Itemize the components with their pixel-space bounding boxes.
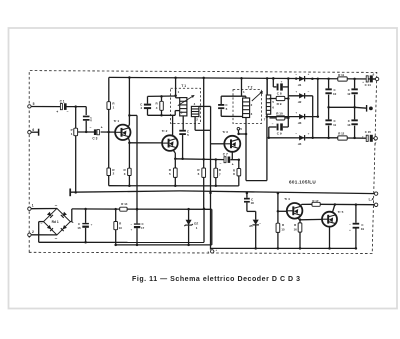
- transistor Tr2: [162, 135, 178, 151]
- svg-text:1: 1: [113, 106, 115, 110]
- svg-text:4: 4: [194, 102, 196, 106]
- wire emitter bus: [175, 158, 224, 161]
- transistor Tr3: [224, 136, 240, 152]
- wire bottom right rail: [211, 247, 357, 249]
- svg-text:T 2: T 2: [248, 86, 253, 90]
- svg-text:601.105/LU: 601.105/LU: [289, 180, 316, 185]
- svg-text:5: 5: [187, 133, 189, 137]
- svg-text:3: 3: [208, 250, 210, 254]
- inductor T2 primary: [243, 98, 250, 118]
- svg-text:d3: d3: [298, 121, 302, 125]
- svg-text:−: −: [220, 162, 222, 166]
- svg-text:6: 6: [32, 128, 34, 132]
- potentiometer P1: [74, 128, 78, 136]
- capacitor C1: [60, 104, 62, 110]
- svg-text:T 1: T 1: [181, 84, 186, 88]
- wire P1 wiper row: [78, 131, 95, 133]
- node emitter bus R7: [215, 158, 218, 161]
- wire T1 pin 1 from top rail: [175, 78, 177, 96]
- node C17 bottom: [136, 244, 139, 247]
- wire T1 secondary top to base column: [199, 105, 211, 107]
- svg-text:C 14: C 14: [365, 83, 371, 87]
- wire Tr5 collector: [332, 205, 335, 213]
- wire R3 to ground rail A: [128, 176, 130, 186]
- wire Tr5 base: [300, 218, 322, 220]
- svg-text:C 3: C 3: [92, 136, 97, 140]
- svg-text:d5: d5: [249, 224, 253, 228]
- svg-text:16: 16: [77, 226, 81, 230]
- node C13 bottom: [353, 137, 356, 140]
- terminal 3: [211, 250, 214, 253]
- capacitor C9: [277, 124, 279, 131]
- svg-text:Tr 5: Tr 5: [338, 210, 344, 214]
- terminal LA upper: [374, 192, 377, 195]
- wire T1 primary bottom to C5: [182, 116, 184, 130]
- svg-text:3: 3: [124, 172, 126, 176]
- svg-text:Tr 4: Tr 4: [284, 197, 290, 201]
- svg-text:−: −: [67, 110, 69, 114]
- wire T2 secondary top to rail: [266, 78, 268, 95]
- svg-text:−: −: [130, 222, 132, 226]
- svg-text:4: 4: [156, 106, 158, 110]
- wire C6 top loop: [220, 96, 222, 104]
- svg-text:2: 2: [251, 103, 253, 107]
- capacitor C3: [94, 129, 97, 135]
- node B+ column joins rail: [136, 208, 139, 211]
- resistor R8: [237, 169, 241, 176]
- node R9 right: [287, 97, 290, 100]
- diode d5: [253, 220, 259, 225]
- node R13 bottom: [114, 244, 117, 247]
- svg-text:R: R: [282, 223, 285, 227]
- svg-text:+: +: [130, 227, 132, 231]
- node rail B junctions: [74, 191, 77, 194]
- node C5 bottom: [181, 158, 184, 161]
- wire Tr2 emitter: [173, 150, 175, 153]
- inductor T2 secondary: [266, 95, 270, 114]
- node input junction: [74, 105, 77, 108]
- wire d4 row: [269, 137, 338, 139]
- node R10 right: [287, 117, 290, 120]
- resistor R15: [277, 211, 279, 223]
- node T2 primary bottom Tr3 collector: [245, 133, 248, 136]
- transistor Tr4: [287, 203, 303, 219]
- svg-text:Tr 2: Tr 2: [162, 129, 168, 133]
- svg-text:R: R: [294, 223, 297, 227]
- rectifier Rd1 bridge: [44, 208, 71, 235]
- ground chassis bar: [69, 189, 71, 197]
- svg-text:+: +: [91, 223, 93, 227]
- wire Tr1 emitter: [128, 138, 129, 141]
- node C19 top: [355, 203, 358, 206]
- svg-text:R 10: R 10: [276, 112, 283, 116]
- wire ground rail A: [109, 185, 239, 187]
- wire supply rail right of R14: [127, 208, 212, 210]
- node mid row left: [327, 106, 330, 109]
- svg-text:~: ~: [55, 236, 58, 241]
- wire C9 left down to row4: [269, 126, 274, 128]
- wire Tr4 emitter to R16: [297, 218, 300, 221]
- svg-text:6: 6: [373, 73, 375, 77]
- resistor R4: [160, 101, 164, 110]
- node Tr1 emitter: [128, 142, 131, 145]
- wire d3 row: [267, 116, 318, 118]
- node R4 top: [160, 95, 163, 98]
- svg-text:R 17: R 17: [312, 199, 318, 203]
- svg-text:+: +: [56, 110, 58, 114]
- wire T2 pin 1 from top rail: [241, 78, 243, 96]
- svg-text:18: 18: [251, 201, 255, 205]
- svg-text:~: ~: [55, 203, 58, 208]
- wire chassis rail B: [70, 191, 180, 192]
- svg-text:13: 13: [119, 226, 123, 230]
- diode DZ zener: [188, 209, 190, 220]
- terminal 2: [28, 233, 31, 236]
- svg-text:1: 1: [243, 90, 245, 94]
- node R8 top: [238, 158, 241, 161]
- svg-text:19: 19: [361, 227, 365, 231]
- svg-text:+: +: [281, 79, 283, 83]
- svg-text:+: +: [308, 131, 310, 135]
- resistor R12: [338, 136, 347, 140]
- node emitter bus R6: [202, 158, 205, 161]
- wire mid row: [329, 106, 355, 108]
- wire terminal 1 to bridge: [31, 208, 57, 210]
- node supply corner ground: [203, 208, 206, 211]
- svg-text:Fig. 11 — Schema elettrico Dec: Fig. 11 — Schema elettrico Decoder D C D…: [132, 276, 301, 283]
- terminal 1: [28, 207, 31, 210]
- svg-text:10: 10: [333, 92, 337, 96]
- svg-text:3: 3: [251, 112, 253, 116]
- wire Tr4 base: [278, 210, 287, 212]
- svg-text:15: 15: [281, 228, 285, 232]
- node zener top: [187, 208, 190, 211]
- diode d3: [299, 114, 304, 119]
- arrow T2 tuning: [252, 91, 263, 101]
- terminal LA lower: [374, 203, 377, 206]
- capacitor C4: [147, 96, 149, 103]
- wire R10 leads: [269, 117, 276, 119]
- wire T1 secondary bottom: [194, 117, 196, 131]
- wire secondary pin4 hook: [266, 78, 268, 95]
- svg-text:−: −: [90, 126, 92, 130]
- wire secondary ground line: [116, 244, 212, 246]
- node C9 row4: [268, 137, 271, 140]
- wire R7 leads: [215, 160, 217, 169]
- svg-text:R 11: R 11: [338, 73, 344, 77]
- node C2 bottom: [85, 131, 88, 134]
- svg-text:−: −: [295, 132, 297, 136]
- wire R8 leads: [238, 160, 240, 169]
- svg-text:+: +: [101, 125, 103, 129]
- diode d2: [299, 93, 304, 98]
- svg-text:−: −: [259, 222, 261, 226]
- resistor R1: [107, 102, 111, 110]
- wire Tr5 emitter: [329, 227, 331, 249]
- wire R5 leads: [174, 159, 176, 168]
- svg-text:11: 11: [333, 123, 336, 127]
- wire base feed column: [277, 193, 279, 211]
- svg-text:7: 7: [375, 142, 377, 146]
- wire collector node to top rail: [128, 78, 130, 116]
- svg-text:d4: d4: [298, 142, 302, 146]
- svg-text:4: 4: [140, 106, 142, 110]
- svg-text:d2: d2: [298, 100, 302, 104]
- transistor Tr1: [115, 125, 130, 140]
- svg-text:−: −: [349, 222, 351, 226]
- wire R6 bottom to supply rail: [203, 177, 205, 208]
- node R4 bottom: [160, 114, 163, 117]
- node mid row right: [353, 106, 356, 109]
- node zener bottom: [187, 244, 190, 247]
- svg-text:C 9: C 9: [277, 132, 282, 136]
- capacitor C12: [354, 79, 356, 89]
- wire C4 R4 top: [148, 95, 176, 97]
- wire C1 to node: [66, 106, 86, 108]
- wire R2 to ground rail A: [108, 176, 110, 186]
- capacitor C5: [179, 130, 186, 132]
- node rail joints: [254, 247, 257, 250]
- node Tr2 emitter bus left: [174, 158, 177, 161]
- svg-text:L.A: L.A: [369, 198, 375, 202]
- wire top supply rail: [109, 77, 377, 79]
- svg-text:12: 12: [347, 92, 351, 96]
- node rail A junctions: [128, 184, 131, 187]
- diode bridge top-right: [63, 212, 67, 216]
- capacitor C15: [366, 135, 368, 141]
- node R13 top: [114, 208, 117, 211]
- svg-text:8: 8: [233, 172, 235, 176]
- wire C14 to terminal: [373, 78, 376, 80]
- node T1 pin 1: [174, 94, 177, 97]
- svg-text:5: 5: [33, 102, 35, 106]
- test point e: [369, 107, 373, 111]
- wire C6 bottom loop: [220, 109, 222, 116]
- node R1 R2 column at base wire: [107, 131, 110, 134]
- svg-text:C 1: C 1: [60, 100, 65, 104]
- resistor R11: [338, 77, 347, 81]
- terminal 6: [28, 131, 31, 134]
- svg-text:6: 6: [198, 172, 200, 176]
- diode bridge bottom-right: [63, 225, 67, 229]
- wire P1 down to chassis rail: [75, 136, 77, 193]
- node Tr5 collector: [334, 203, 337, 206]
- svg-text:+: +: [349, 228, 351, 232]
- wire C3 to Tr1 base: [101, 131, 116, 133]
- wire R17 to output node: [320, 203, 374, 205]
- terminal 6 output: [375, 77, 378, 80]
- diode bridge top-left: [47, 212, 51, 216]
- diode bridge bottom-left: [47, 225, 51, 229]
- svg-text:C 7: C 7: [223, 152, 228, 156]
- wire C4 R4 bottom: [148, 114, 176, 116]
- wire Tr3 base: [211, 143, 225, 145]
- resistor R16: [298, 223, 302, 232]
- wire d2 to bottom row: [312, 96, 314, 138]
- wire d3 to top rail: [317, 79, 319, 117]
- svg-text:R 12: R 12: [338, 132, 344, 136]
- resistor R5: [173, 168, 177, 177]
- svg-text:1: 1: [196, 226, 198, 230]
- wire collector node to B+ column: [129, 114, 137, 116]
- svg-text:6: 6: [226, 107, 228, 111]
- wire R6 column from top rail: [203, 78, 205, 168]
- wire U loop bottom: [246, 180, 267, 182]
- wire emitter to Tr2 base: [129, 142, 162, 144]
- svg-text:13: 13: [347, 123, 351, 127]
- wire right column discriminator: [287, 79, 289, 128]
- wire test point to collector corner: [237, 130, 239, 134]
- node top rail junctions: [128, 76, 131, 79]
- wire pin1 to primary: [175, 96, 177, 98]
- resistor R17: [312, 202, 320, 206]
- arrow T1 tuning: [178, 95, 195, 105]
- wire terminal 2 to bridge: [31, 234, 57, 236]
- terminal 7 output: [374, 137, 377, 140]
- resistor R2: [107, 168, 111, 176]
- capacitor C10: [328, 79, 330, 89]
- capacitor C17: [136, 209, 138, 223]
- wire Tr1 collector: [128, 125, 129, 127]
- capacitor C7: [224, 157, 226, 163]
- svg-text:R 14: R 14: [121, 202, 127, 206]
- svg-text:2: 2: [113, 172, 115, 176]
- svg-text:−: −: [272, 122, 274, 126]
- capacitor C19: [355, 205, 357, 223]
- wire node to P1: [75, 107, 77, 129]
- resistor R9: [276, 96, 285, 100]
- node test point near T2: [237, 127, 240, 130]
- terminal 5: [28, 105, 31, 108]
- wire de-emphasis stub: [355, 106, 367, 109]
- svg-text:Tr 1: Tr 1: [114, 119, 120, 123]
- diode d4: [299, 135, 304, 140]
- svg-text:4: 4: [261, 91, 263, 95]
- node C16 top: [84, 208, 87, 211]
- svg-text:Rd 1: Rd 1: [52, 220, 59, 224]
- wire bridge minus to ground rail: [39, 221, 44, 223]
- svg-text:+: +: [295, 90, 297, 94]
- node d3 row left: [266, 115, 269, 118]
- capacitor C13: [354, 107, 356, 119]
- inductor T1 primary: [180, 98, 187, 116]
- wire bottom discriminator row: [306, 137, 338, 139]
- svg-text:1: 1: [32, 204, 34, 208]
- diode d1: [299, 76, 304, 81]
- wire emitter to R3: [128, 143, 130, 168]
- wire Tr3 emitter: [231, 152, 233, 160]
- svg-text:5: 5: [272, 100, 274, 104]
- svg-text:d1: d1: [298, 83, 302, 87]
- capacitor C11: [328, 107, 330, 119]
- inductor T1 secondary: [191, 106, 199, 116]
- wire C18 to d5: [247, 210, 256, 212]
- capacitor C14: [366, 76, 368, 82]
- svg-text:1: 1: [71, 132, 73, 136]
- wire C8 left lead: [272, 79, 274, 87]
- svg-text:17: 17: [141, 226, 145, 230]
- node d2 bottom: [311, 137, 314, 140]
- resistor R10: [276, 116, 285, 120]
- wire C8 right lead: [283, 86, 289, 88]
- svg-text:+: +: [308, 72, 310, 76]
- svg-text:2: 2: [32, 230, 34, 234]
- transformer T2 dashed box: [233, 90, 261, 124]
- resistor R6: [202, 168, 206, 177]
- resistor R7: [214, 168, 218, 177]
- wire C15 to terminal: [373, 137, 374, 139]
- svg-text:16: 16: [294, 227, 298, 231]
- svg-text:−: −: [295, 72, 297, 76]
- resistor R13: [115, 209, 117, 221]
- transformer T1 dashed box: [171, 88, 201, 123]
- wire Tr3 base column to terminal 3: [210, 130, 212, 249]
- node d3 top: [317, 115, 320, 118]
- wire R9 leads: [269, 98, 276, 100]
- svg-text:4n7: 4n7: [89, 117, 93, 122]
- capacitor C6: [218, 104, 224, 106]
- wire supply rail corner: [211, 209, 213, 245]
- svg-text:2: 2: [196, 117, 198, 121]
- svg-text:C 15: C 15: [365, 130, 371, 134]
- wire Tr4 collector to R17: [300, 204, 302, 206]
- node Tr1 collector junction: [128, 114, 131, 117]
- resistor R14: [120, 207, 127, 211]
- wire d2 row: [288, 95, 312, 97]
- svg-text:R 9: R 9: [277, 102, 282, 106]
- svg-text:+: +: [232, 163, 234, 167]
- capacitor C8: [277, 84, 279, 91]
- svg-text:5: 5: [169, 172, 171, 176]
- svg-text:6: 6: [272, 105, 274, 109]
- wire Tr2 collector: [172, 115, 174, 135]
- schematic dashed border: [29, 71, 377, 254]
- wire C9 leads: [274, 126, 277, 128]
- wire T2 primary bottom: [245, 118, 247, 181]
- svg-text:1: 1: [178, 90, 180, 94]
- capacitor C16: [85, 209, 87, 223]
- svg-text:C 8: C 8: [277, 92, 282, 96]
- node Tr4 base R15: [277, 210, 280, 213]
- wire C7 right to R8: [230, 159, 238, 161]
- wire input from terminal 5: [31, 106, 60, 108]
- node C11 bottom: [327, 137, 330, 140]
- wire terminal 6 stub: [31, 131, 38, 133]
- svg-text:−: −: [308, 89, 310, 93]
- svg-text:7: 7: [264, 118, 266, 122]
- wire R1 to R2 column: [108, 109, 110, 168]
- node C17 top: [136, 208, 139, 211]
- wire bridge plus up: [70, 221, 72, 223]
- node C16 bottom: [84, 241, 87, 244]
- svg-text:Tr 3: Tr 3: [222, 130, 228, 134]
- capacitor C18: [246, 193, 248, 198]
- transistor Tr5: [322, 212, 337, 227]
- capacitor C2: [85, 107, 87, 115]
- wire R4 leads: [161, 96, 163, 101]
- resistor R3: [128, 168, 131, 175]
- node C8 feed: [272, 77, 275, 80]
- svg-text:+: +: [295, 110, 297, 114]
- svg-text:7: 7: [219, 172, 221, 176]
- svg-text:5: 5: [240, 127, 242, 131]
